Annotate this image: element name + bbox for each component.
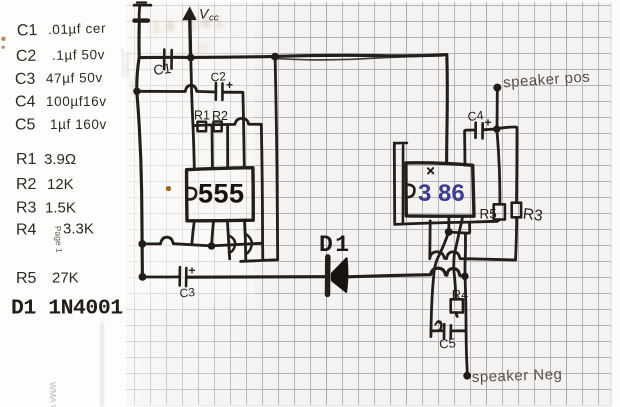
resistor R4 box: [451, 299, 463, 312]
white page band left: [0, 0, 126, 407]
svg-text:speaker Neg: speaker Neg: [472, 366, 563, 386]
svg-text:47µf 50v: 47µf 50v: [46, 70, 103, 86]
wire2 left (pin5 rail) with hop over Vcc line: [137, 85, 215, 92]
left rail: [137, 22, 143, 277]
svg-text:R2: R2: [16, 176, 37, 193]
Vcc stem: [188, 20, 192, 58]
IC U2 386 amplifier box: [406, 163, 474, 216]
svg-text:D1: D1: [319, 232, 352, 258]
node: 386 pin junction below box: [445, 228, 453, 236]
circuit text labels: [152, 6, 590, 386]
top bus: [139, 55, 447, 164]
node: left rail / C1 bottom wire junction: [133, 88, 140, 95]
H258 link with two hops: [430, 252, 516, 260]
resistor R2 square: [214, 122, 222, 132]
vertical from dot down-left to C5: [431, 232, 449, 337]
speaker pos stem: [496, 91, 499, 128]
svg-text:100µf16v: 100µf16v: [46, 94, 107, 109]
svg-text:C2: C2: [210, 69, 227, 84]
R3 rail above: [499, 127, 517, 203]
hop arc over wire-A (right): [245, 234, 251, 255]
svg-text:R2: R2: [212, 109, 228, 123]
capacitor C1 plates: [163, 50, 166, 70]
R3 rail below: [516, 218, 517, 261]
svg-text:C5: C5: [15, 117, 36, 134]
svg-text:C1: C1: [17, 22, 38, 40]
svg-text:.1µf 50v: .1µf 50v: [52, 47, 105, 63]
heavier grid verticals: [327, 0, 567, 407]
svg-text:+: +: [226, 78, 233, 92]
svg-text:R5: R5: [480, 207, 497, 222]
555 pin (bottom) crossing wire-A, second: [245, 221, 246, 261]
vertical to bus dot and down to speaker neg: [465, 233, 467, 372]
svg-text:1µf 160v: 1µf 160v: [50, 117, 107, 132]
svg-text:R1: R1: [194, 109, 210, 123]
resistor R3 box: [512, 203, 521, 218]
input bracket left of 386: [393, 143, 396, 224]
svg-text:R5: R5: [16, 270, 37, 287]
node: 555 output pin / wire-A junction: [208, 242, 216, 250]
top bus doubled stroke: [272, 56, 443, 60]
555 notch: [188, 188, 196, 200]
svg-text:C4: C4: [15, 94, 36, 111]
C5 right wire: [451, 329, 466, 332]
555 pin (bottom-left) to wire-A: [192, 221, 194, 243]
svg-text:C2: C2: [16, 48, 37, 65]
C4 right wire to dot to corner: [483, 128, 497, 131]
R5 rail from C4 dot down: [497, 131, 500, 204]
svg-text:555: 555: [198, 179, 245, 209]
svg-text:R1: R1: [16, 151, 37, 168]
svg-text:12K: 12K: [47, 176, 74, 193]
node: left rail / wire-A junction: [138, 240, 146, 248]
C3 wire left: [143, 275, 180, 278]
ground: [137, 1, 146, 3]
svg-text:C5: C5: [439, 335, 457, 351]
diode D1 triangle: [332, 258, 348, 292]
node: C4 / speaker-pos / R5 junction: [493, 125, 500, 132]
555 pin (top, second): [211, 126, 214, 168]
wire-A: rail to 555 output area with bump: [142, 237, 262, 246]
svg-text:R3: R3: [522, 206, 544, 225]
555 pin (top, third): [226, 126, 229, 168]
svg-text:+: +: [485, 116, 492, 130]
bus D1 to 386 area with two hops and junction: [348, 268, 465, 277]
long vertical from top bus junction down: [275, 57, 278, 260]
list row C1: [17, 20, 107, 39]
svg-text:C3: C3: [179, 285, 196, 301]
wire C2 to corner, down into 555 (through R1R2 hop): [223, 92, 244, 168]
svg-text:C4: C4: [467, 108, 484, 124]
svg-text:27K: 27K: [52, 270, 79, 287]
svg-text:3.9Ω: 3.9Ω: [44, 151, 76, 168]
svg-text:1.5K: 1.5K: [45, 200, 76, 217]
diode D1 cathode bar: [325, 257, 331, 295]
svg-text:cc: cc: [209, 13, 219, 24]
lower link H260: [241, 260, 278, 262]
capacitor C5 plates: [443, 324, 446, 338]
C5 polarity curl: [438, 321, 442, 330]
faint scribbles left of C1 label: [122, 48, 133, 96]
list row C3: [15, 70, 103, 89]
R1R2 wire with hop over C2 drop: [193, 118, 261, 125]
resistor R1 square: [198, 122, 207, 132]
386 pin down to junction dot: [447, 217, 450, 232]
faint smudge marks top area: [151, 11, 228, 53]
translucent sheet overlay: [122, 0, 262, 407]
graph paper grid: [118, 1, 612, 406]
555 pin (bottom) crossing wire-A: [227, 221, 229, 259]
svg-text:3 86: 3 86: [418, 180, 465, 207]
386 notch: [407, 185, 414, 198]
C4 left wire with drop into 386: [465, 130, 476, 165]
vertical 386 pin to R4 to C5: [454, 217, 463, 299]
short vertical box-bottom to H258: [428, 221, 431, 259]
list row C2: [16, 46, 105, 65]
node: top bus / right drop junction: [271, 53, 279, 61]
svg-text:R4: R4: [16, 222, 37, 239]
Vcc arrow head: [182, 6, 197, 20]
gray streak bottom left page edge: [100, 322, 104, 407]
dot-wire to L222: [449, 222, 470, 233]
svg-text:D1 1N4001: D1 1N4001: [11, 297, 123, 321]
top edge strip: [0, 0, 620, 3]
capacitor C3 plates: [178, 267, 181, 285]
speaker pos terminal: [493, 84, 501, 92]
capacitor C4 plates: [474, 123, 477, 138]
resistor R5 box: [494, 204, 505, 219]
capacitor C2 plates: [215, 83, 218, 100]
node: Vcc / top bus junction: [187, 54, 195, 62]
svg-text:3.3K: 3.3K: [63, 221, 94, 238]
node: bottom bus / speaker-neg rail junction: [461, 273, 468, 280]
right page margin: [612, 0, 620, 407]
node: left rail / C3 bus junction: [139, 273, 147, 281]
svg-text:R3: R3: [16, 200, 37, 217]
svg-text:C1: C1: [152, 60, 172, 78]
bottom bus C3 to D1: [187, 275, 327, 279]
svg-text:WMA V: WMA V: [48, 382, 58, 407]
line under 386 (L222): [395, 221, 497, 224]
svg-text:11: 11: [198, 41, 209, 53]
svg-text:R4: R4: [452, 287, 469, 302]
555 output pin to wire-A dot: [212, 221, 214, 246]
hop arc over wire-A (left): [228, 235, 235, 252]
IC U1 555 timer box: [187, 168, 254, 221]
colored specks: [1, 37, 5, 41]
speaker neg terminal: [463, 372, 471, 380]
svg-text:.01µf cer: .01µf cer: [48, 21, 107, 38]
svg-text:C3: C3: [15, 71, 36, 88]
x mark above 386: [428, 168, 433, 173]
vertical Vcc junction down to 555 pin: [191, 58, 195, 168]
svg-text:+: +: [189, 264, 196, 278]
wire right side of 555 down (output rail): [261, 124, 263, 259]
